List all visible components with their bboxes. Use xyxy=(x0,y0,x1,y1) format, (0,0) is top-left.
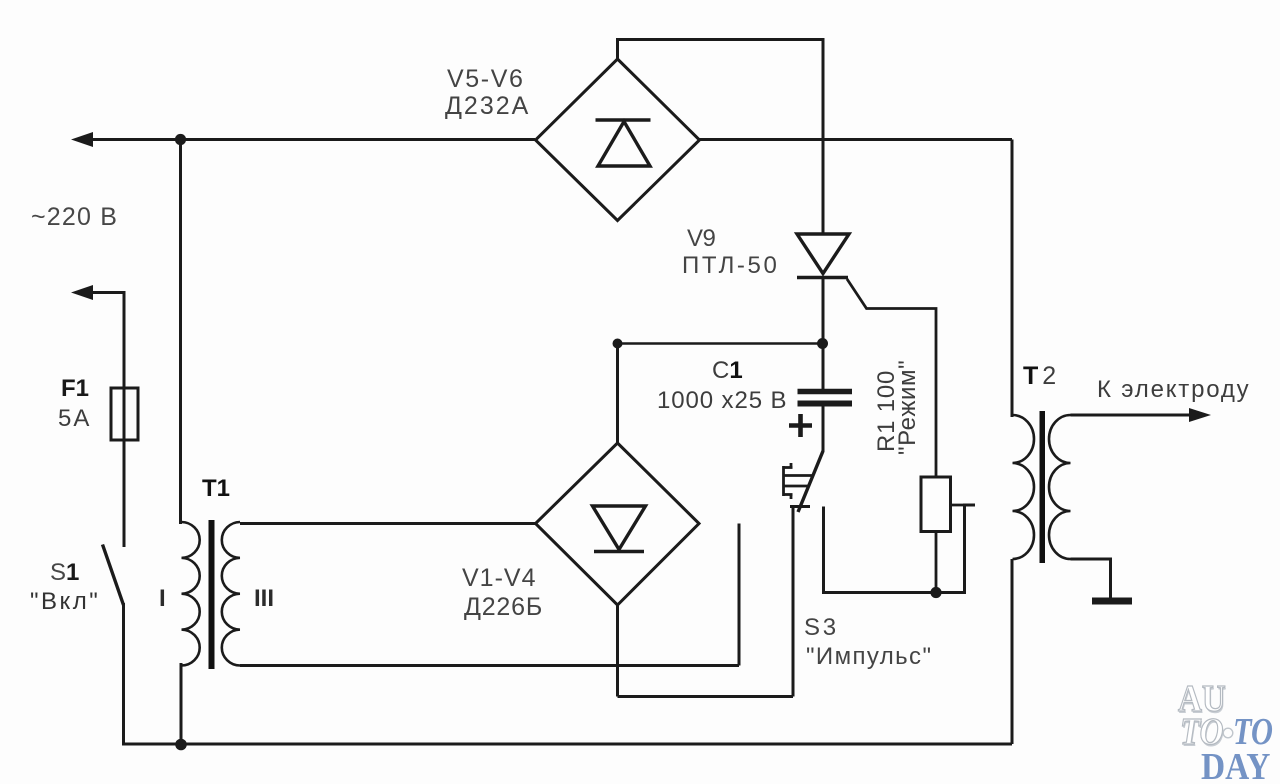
capacitor plus sign xyxy=(789,414,812,437)
svg-text:"Импульс": "Импульс" xyxy=(806,643,932,670)
switch S3 actuator xyxy=(784,463,813,499)
bridge rectifier V5-V6 diamond xyxy=(536,59,700,221)
node junction dot bottom-left xyxy=(175,739,187,751)
svg-text:"Вкл": "Вкл" xyxy=(30,588,100,615)
wire: S3 right branch to R1 bottom xyxy=(824,505,976,593)
svg-text:"Режим": "Режим" xyxy=(894,360,921,455)
svg-text:1000 x25 В: 1000 x25 В xyxy=(657,387,787,414)
wire: vertical from junction to T1 primary xyxy=(179,140,182,525)
wire: T2 left lead down xyxy=(1011,140,1014,418)
diode symbol inside V5-V6 xyxy=(596,120,651,166)
arrow second branch xyxy=(71,285,93,300)
ground symbol xyxy=(1092,598,1132,605)
wire: below S1 down to bottom rail xyxy=(122,603,125,746)
wire: top loop from bridge top vertex xyxy=(618,40,824,235)
wire: top bridge right vertex to T2 xyxy=(700,138,1013,141)
wire: R1 right stub xyxy=(950,504,975,507)
wire: T2 left bottom lead to bottom rail xyxy=(1011,559,1014,744)
wire: R1 bottom lead xyxy=(935,532,938,593)
svg-text:Д226Б: Д226Б xyxy=(464,593,543,621)
svg-text:III: III xyxy=(254,585,274,612)
svg-text:V9: V9 xyxy=(687,225,716,252)
wire: bottom rail xyxy=(122,743,1012,746)
svg-text:V1-V4: V1-V4 xyxy=(462,564,536,592)
wire: S3 left riser xyxy=(792,507,795,697)
node dot at C1 top left xyxy=(613,339,623,349)
svg-text:T1: T1 xyxy=(202,475,230,502)
transformer T2 core xyxy=(1040,411,1046,563)
switch S3 blade xyxy=(798,451,823,512)
wire: riser to bottom bridge right vertex xyxy=(738,524,741,666)
wire: bottom bridge bottom vertex down xyxy=(616,605,619,697)
wire: T2 secondary bottom to ground xyxy=(1071,559,1111,598)
node dot above C1 xyxy=(817,338,828,349)
wire: horizontal between bridges node line xyxy=(618,342,823,345)
wire: arrow branch to fuse xyxy=(91,293,124,389)
svg-text:ПТЛ-50: ПТЛ-50 xyxy=(682,252,779,279)
wire: T1 III bottom lead xyxy=(240,664,739,667)
svg-text:C1: C1 xyxy=(712,357,743,384)
switch S3 contact bar xyxy=(790,505,810,508)
transformer T2 primary winding xyxy=(1013,415,1035,559)
wire: T1 III top lead to bottom bridge left vertex xyxy=(240,522,536,525)
svg-text:V5-V6: V5-V6 xyxy=(447,65,524,93)
svg-text:I: I xyxy=(159,585,166,612)
svg-text:T2: T2 xyxy=(1023,362,1060,390)
switch S1 blade xyxy=(103,545,124,606)
svg-text:Д232А: Д232А xyxy=(445,92,530,120)
svg-text:DAY: DAY xyxy=(1201,745,1271,784)
transformer T1 secondary winding III xyxy=(222,522,240,666)
svg-text:S3: S3 xyxy=(804,614,839,641)
watermark AUTO-TODAY xyxy=(1178,677,1273,784)
wire: thyristor gate to R1 xyxy=(847,279,936,477)
wire: T1 primary bottom lead xyxy=(180,663,183,744)
wire: top main horizontal ~220V line xyxy=(88,138,535,141)
transformer T1 core xyxy=(209,520,215,669)
transformer T2 secondary winding xyxy=(1049,415,1071,559)
svg-text:F1: F1 xyxy=(61,375,89,402)
capacitor C1 plates xyxy=(798,389,853,395)
svg-text:~220 В: ~220 В xyxy=(31,203,118,231)
fuse F1 body xyxy=(111,388,138,440)
bridge rectifier V1-V4 diamond xyxy=(536,443,700,605)
svg-text:К электроду: К электроду xyxy=(1097,376,1250,403)
transformer T1 primary winding I xyxy=(182,522,200,666)
wire: thyristor cathode down to node xyxy=(822,278,825,391)
wire through fuse to switch S1 xyxy=(123,388,126,547)
wire: C1 bottom to S3 xyxy=(822,407,825,453)
diode symbol inside V1-V4 xyxy=(593,506,646,552)
thyristor V9 xyxy=(797,234,849,278)
node junction dot top-left xyxy=(175,134,186,145)
svg-text:S1: S1 xyxy=(50,559,79,586)
wire: horizontal to S3 lower branch xyxy=(618,695,794,698)
arrow left on 220V line xyxy=(71,132,93,147)
svg-text:5А: 5А xyxy=(58,405,91,432)
node dot under R1 xyxy=(930,587,941,598)
wire: T2 secondary top lead to electrode xyxy=(1071,414,1194,417)
wire: bottom bridge top vertex up to node xyxy=(616,344,619,444)
resistor R1 body xyxy=(921,477,951,532)
arrow to electrode xyxy=(1189,408,1211,422)
